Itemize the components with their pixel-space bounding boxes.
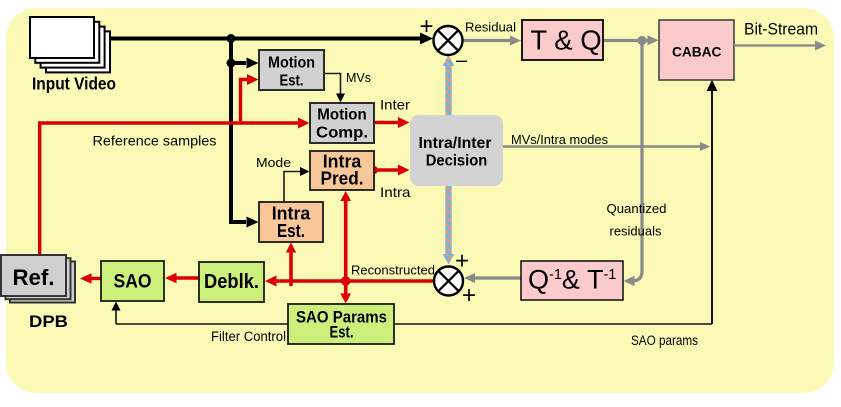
svg-text:Inter: Inter [380,97,410,113]
wire SAO to Ref (red) [88,277,101,280]
wire Q-1T-1 to adder (gray) [472,276,521,279]
svg-text:Reconstructed: Reconstructed [351,264,435,278]
block Deblk [199,262,264,302]
block T&Q [522,20,603,60]
svg-text:Input Video: Input Video [32,74,116,94]
ref picture stack (DPB) [1,255,75,303]
svg-text:–: – [456,50,468,72]
wire inter (red, Motion Comp to Decision) [374,121,401,124]
svg-text:Est.: Est. [280,73,304,90]
junction motion est branch [227,59,236,68]
svg-text:SAO: SAO [114,271,152,293]
wire SAO params up to CABAC (black) [711,88,713,324]
wire MVs (Motion Est to Motion Comp) [324,74,341,96]
wire mode (Intra Est to Intra Pred) [284,172,301,203]
svg-text:residuals: residuals [610,224,662,239]
wire quantized residuals down to Q-1T-1 [631,41,642,282]
svg-text:Intra: Intra [380,184,411,200]
block CABAC [659,20,734,80]
junction reconstructed [341,276,351,286]
svg-text:Quantized: Quantized [607,201,667,216]
junction input line [227,34,236,43]
svg-text:Motion: Motion [268,55,315,72]
subtractor circle [434,26,463,55]
junction quantized residuals [637,36,646,45]
svg-text:Filter Control: Filter Control [211,329,286,344]
svg-text:Deblk.: Deblk. [204,271,259,293]
svg-text:Comp.: Comp. [316,125,368,142]
svg-text:+: + [462,282,476,309]
block SAO [101,261,164,301]
svg-text:Residual: Residual [465,20,516,35]
wire bit-stream out [734,44,817,46]
svg-text:SAO params: SAO params [631,333,698,348]
wire intra (red, Intra Pred to Decision) [374,168,401,171]
svg-text:Est.: Est. [330,323,354,342]
block Motion Est [259,50,324,90]
block Intra/Inter Decision [410,115,503,186]
block Q-1 & T-1 [521,261,623,300]
block Intra Pred [310,151,374,190]
svg-text:Bit-Stream: Bit-Stream [744,21,818,39]
svg-text:MVs: MVs [346,71,371,85]
svg-text:MVs/Intra modes: MVs/Intra modes [511,132,608,147]
striped arrow decision to subtractor and adder [443,55,455,265]
wire red up to Intra Est [289,250,293,286]
svg-text:Mode: Mode [256,155,291,170]
wire input video to subtractor [108,39,421,223]
wire Deblk to SAO (red) [173,276,199,279]
wire reference samples (red) [40,80,301,257]
wire reconstructed (red) [273,279,434,283]
input video stack [30,17,110,72]
block Motion Comp [310,103,374,143]
wire MVs/Intra modes (gray) [503,145,702,148]
block SAO Params Est [288,304,394,344]
wire red up to Intra Pred / down to SAO Params Est [344,199,348,297]
svg-text:Intra/Inter: Intra/Inter [419,135,492,152]
svg-text:+: + [419,13,433,40]
adder circle [434,267,463,296]
block Intra Est [259,202,323,242]
wire residual (gray) [463,39,512,42]
svg-text:+: + [455,248,469,275]
svg-text:Est.: Est. [277,221,305,241]
svg-text:DPB: DPB [29,313,68,331]
svg-text:Ref.: Ref. [13,265,55,290]
svg-text:Q-1& T-1: Q-1& T-1 [528,265,616,295]
svg-text:Reference samples: Reference samples [93,133,217,149]
svg-text:T & Q: T & Q [530,25,601,56]
svg-text:CABAC: CABAC [672,44,722,60]
wire filter control (black) [116,323,712,325]
wire T&Q to CABAC (gray) [603,39,650,42]
svg-text:Motion: Motion [317,107,367,124]
svg-text:Pred.: Pred. [321,169,364,189]
svg-text:Decision: Decision [426,153,488,170]
